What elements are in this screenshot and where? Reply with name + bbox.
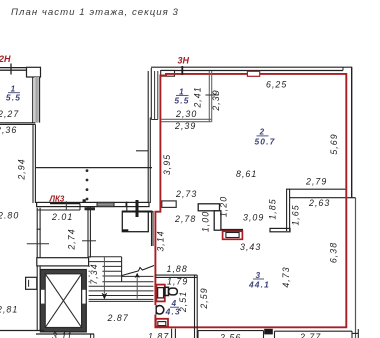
wall room1-left bottom double [0, 123, 35, 125]
stairwell door-side wall stub [85, 207, 96, 210]
stairwell right wall double [152, 211, 154, 246]
svg-text:6,38: 6,38 [329, 242, 339, 263]
wall segment right of red jog [162, 201, 176, 208]
svg-text:2,78: 2,78 [174, 214, 196, 224]
bottom small verticals [91, 334, 94, 338]
svg-text:2,36: 2,36 [0, 125, 17, 135]
svg-text:2Н: 2Н [0, 54, 11, 64]
svg-text:1,85: 1,85 [268, 198, 278, 219]
room 1 left label [6, 85, 21, 103]
room 3 label [248, 271, 270, 290]
svg-text:1,65: 1,65 [291, 204, 301, 225]
corridor wall lower edge line left of door [37, 204, 80, 211]
tick room1-right dim [205, 94, 218, 96]
svg-text:2,56: 2,56 [219, 333, 241, 338]
tick left wall dim [27, 243, 49, 245]
wall segment room2-3 left [270, 228, 290, 231]
svg-text:2,59: 2,59 [199, 287, 209, 309]
section3 outer black wall right upper [351, 67, 353, 198]
svg-text:5.5: 5.5 [6, 93, 21, 103]
svg-text:2,39: 2,39 [174, 121, 196, 131]
small duct box left of wall [26, 277, 37, 289]
room1-right walls [161, 71, 212, 122]
svg-text:1,00: 1,00 [201, 211, 211, 232]
svg-text:3,95: 3,95 [162, 154, 172, 175]
tick 2H dim [10, 64, 12, 75]
svg-text:2,41: 2,41 [193, 86, 203, 108]
section3 corner block top-left [161, 71, 175, 77]
red niche box 1 [156, 285, 164, 302]
svg-text:2,74: 2,74 [67, 228, 77, 250]
LK3 leader line [65, 201, 67, 210]
stairs down arrow [102, 257, 108, 300]
svg-text:3Н: 3Н [178, 56, 190, 66]
svg-text:2,81: 2,81 [0, 305, 18, 315]
svg-text:1,20: 1,20 [219, 196, 229, 217]
red vent box [223, 231, 243, 239]
svg-text:1,88: 1,88 [167, 264, 188, 274]
red niche box 2 [156, 319, 168, 327]
svg-text:2,63: 2,63 [308, 198, 330, 208]
stairs upper flight treads [89, 257, 122, 276]
wall top-left band [0, 67, 27, 70]
black duct in niche 2 [158, 322, 166, 326]
stairs up arrow [135, 273, 140, 299]
toilet [165, 287, 177, 295]
stairs partial tread [122, 275, 154, 277]
wall above elevator [37, 258, 89, 266]
svg-text:3,14: 3,14 [156, 230, 166, 251]
canopy line [35, 167, 152, 169]
svg-text:2.87: 2.87 [107, 313, 129, 323]
leader dot [83, 199, 86, 202]
divider block bottom [264, 329, 273, 335]
room4 top wall double [155, 275, 197, 277]
svg-text:3,11: 3,11 [52, 331, 73, 338]
svg-text:2.80: 2.80 [0, 211, 19, 221]
svg-text:5,69: 5,69 [329, 133, 339, 154]
room4 right wall double [195, 275, 198, 338]
svg-text:2,39: 2,39 [211, 89, 221, 111]
washbasin [151, 305, 164, 315]
Z-wall top bar [198, 204, 219, 211]
svg-text:2.01: 2.01 [51, 212, 73, 222]
svg-text:44.1: 44.1 [248, 279, 270, 289]
svg-text:1,79: 1,79 [167, 277, 188, 287]
wall vertical hatched left room [33, 77, 40, 123]
red section outline [155, 74, 346, 327]
svg-text:50.7: 50.7 [254, 137, 275, 147]
corridor top wall band [37, 202, 149, 206]
left building right wall upper band [151, 68, 158, 120]
window sill line left building [136, 150, 148, 152]
black duct in niche [158, 288, 164, 298]
bottom balcony boxes [172, 329, 359, 338]
svg-text:1,87: 1,87 [148, 331, 169, 338]
bottom-left wall line [0, 330, 44, 332]
svg-text:6,25: 6,25 [266, 80, 287, 90]
svg-text:2,73: 2,73 [175, 189, 197, 199]
svg-text:ЛК3: ЛК3 [49, 195, 65, 204]
svg-text:3,43: 3,43 [240, 242, 261, 252]
wall left vertical double [33, 124, 35, 203]
dotted overhang line [86, 169, 89, 200]
section3 outer black wall right lower [355, 198, 357, 338]
stairs flight divider [121, 257, 123, 282]
bottom line under elevator [36, 333, 94, 335]
corridor wall inner thick top line [50, 203, 80, 205]
svg-text:5.5: 5.5 [174, 95, 189, 105]
room 2 label [254, 128, 275, 147]
left building right wall lower double [148, 71, 150, 203]
elevator X [45, 274, 81, 328]
corner column [27, 67, 41, 77]
svg-text:2,51: 2,51 [178, 291, 188, 313]
svg-text:4,73: 4,73 [281, 266, 291, 287]
section3 outer black wall top [151, 67, 352, 70]
svg-text:8,61: 8,61 [236, 169, 257, 179]
stairs break line [122, 266, 154, 276]
svg-text:2: 2 [259, 128, 266, 137]
Z-wall vertical bar [214, 211, 221, 230]
7,34 white box + label [89, 263, 103, 285]
tick corridor wall dim [82, 240, 96, 242]
elevator shaft walls [40, 270, 86, 332]
svg-text:2,94: 2,94 [17, 158, 27, 180]
svg-text:3,09: 3,09 [243, 213, 264, 223]
red top window rect [247, 71, 259, 76]
wall left lower vertical double with jambs [37, 208, 41, 331]
room 4 label [165, 299, 181, 316]
svg-text:План части 1 этажа, секция 3: План части 1 этажа, секция 3 [11, 7, 179, 18]
wall step lines right [347, 197, 355, 199]
wall lines room2-3 to right [287, 189, 346, 198]
tick 3H dim [181, 66, 183, 75]
corridor right wall double [88, 206, 90, 258]
wall vertical double room2-3 [287, 189, 290, 231]
svg-text:2,77: 2,77 [299, 332, 321, 338]
svg-text:2,79: 2,79 [305, 177, 327, 187]
room 1 right label [174, 87, 189, 105]
svg-text:7,34: 7,34 [89, 263, 99, 284]
Z-wall bottom line [221, 229, 243, 231]
svg-text:2,27: 2,27 [0, 109, 19, 119]
stairs lower flight treads [89, 282, 154, 302]
vent shaft box stairwell [122, 200, 152, 232]
svg-text:2,30: 2,30 [175, 109, 197, 119]
